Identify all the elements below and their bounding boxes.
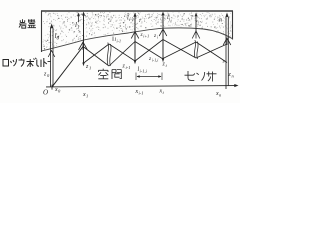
svg-text:i-1: i-1: [126, 65, 131, 70]
svg-text:i+1: i+1: [143, 34, 149, 39]
bolt n (rightmost): [225, 13, 228, 90]
svg-text:1: 1: [89, 66, 91, 71]
label ロックボルト (rock bolt): [3, 58, 47, 67]
bolt 1 (at x1): [82, 12, 85, 66]
rock stipple texture: [43, 12, 232, 49]
svg-text:i-1: i-1: [139, 91, 144, 96]
svg-text:1: 1: [77, 26, 80, 31]
rock surface curve: [42, 28, 233, 51]
svg-text:1: 1: [86, 94, 88, 99]
label 岩盤 (rock mass): [19, 19, 36, 28]
bolt i-1: [133, 13, 136, 64]
fork on continuation bolt: [192, 31, 200, 39]
sensor wire: W2 upper to bolt n lower: [196, 42, 227, 63]
sensor wire: bolt1 fork to W1 bottom: [83, 47, 109, 67]
bolt R0 (leftmost, at x0) with top arrow: [50, 24, 54, 87]
box frame: right border: [232, 11, 234, 40]
wavy break line W2 (lens): [194, 40, 198, 59]
pointer dash from ロックボルト to bolt 0: [48, 61, 52, 63]
dimension arrow l1 beside bolt 1: [77, 13, 80, 23]
svg-text:i-1: i-1: [117, 39, 121, 44]
fork on bolt 0: [48, 51, 55, 58]
sensor wire: bolt0 bottom to bolt1 fork: [52, 47, 83, 87]
bolt i: [162, 12, 165, 62]
box frame: left border: [41, 11, 43, 52]
sensor wire: bolt i-1 fork to bolt i bottom: [135, 42, 163, 60]
box frame: top border: [41, 10, 233, 12]
svg-text:i: i: [157, 35, 158, 40]
bolt (continuation) at x=196: [195, 15, 197, 32]
svg-text:s: s: [223, 59, 225, 65]
svg-text:O: O: [43, 89, 48, 97]
fork on bolt i: [159, 29, 167, 36]
axis tick at x0: [51, 85, 53, 90]
sensor wire: W1 bottom to bolt i-1 fork: [109, 42, 135, 67]
sensor wire: W2 bottom to bolt n fork: [196, 44, 227, 58]
sensor wire: bolt i fork to W2 bottom: [163, 40, 196, 59]
fork / sensor mount on bolt 1: [79, 42, 88, 50]
label 空間 (cavity): [98, 69, 121, 79]
label センサ (sensor): [185, 71, 217, 82]
sensor wire: bolt1 bottom to W1 top: [83, 44, 109, 64]
sensor wire: bolt i bottom to W2 upper: [163, 42, 196, 59]
x axis: [46, 84, 239, 87]
svg-text:n: n: [219, 18, 222, 24]
sensor wire: bolt i-1 bottom to bolt i fork: [135, 40, 163, 62]
svg-text:i-1: i-1: [129, 17, 134, 22]
wavy break line W1 (lens): [107, 43, 111, 67]
sensor wire: W1 top to bolt i-1 bottom: [109, 44, 135, 61]
fork on bolt i-1: [131, 32, 139, 39]
fork on bolt n: [223, 38, 231, 45]
